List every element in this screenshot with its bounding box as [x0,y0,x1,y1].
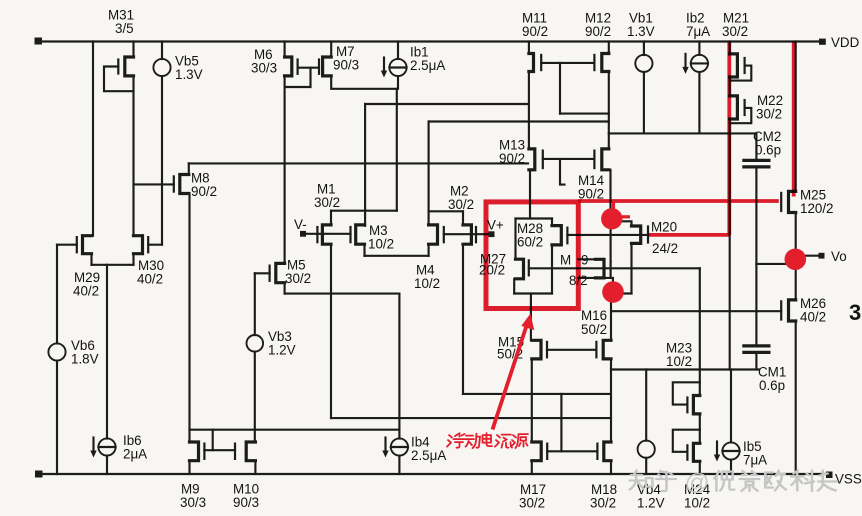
svg-text:0.6p: 0.6p [755,143,781,158]
wire M7 source to VDD [330,42,332,58]
transistor M21 (diode) [730,54,738,77]
wire Vo node to output terminal [796,255,819,257]
svg-text:1.3V: 1.3V [627,24,655,39]
svg-text:60/2: 60/2 [517,235,543,250]
wire M10 source to VSS [254,461,256,474]
wire M30 gate to Vb5 line [148,244,162,246]
current source Ib4 [391,438,408,455]
wire Vb6 column [56,245,58,344]
transistor M4 [429,225,438,244]
wire bus M8 drain to M13 [189,162,528,164]
wire bus y=418.1 [331,417,611,419]
svg-text:30/2: 30/2 [314,195,340,210]
svg-text:90/2: 90/2 [585,24,611,39]
arrow Ib4 [384,438,386,454]
svg-text:1.2V: 1.2V [268,343,296,358]
wire Vb1 down to bias bus [643,72,645,133]
wire bias bus y=133.4 [609,132,756,134]
wire M28 source down to bottom loop [551,245,553,294]
wire M19 source to bottom node [604,278,613,291]
voltage source Vb5 [153,59,170,76]
svg-text:30/3: 30/3 [180,495,206,510]
wire Vb1 tap [643,42,645,56]
wire M4 drain riser to folded node [428,122,430,225]
node square VSS terminal [826,472,833,479]
transistor M2 [463,225,471,244]
wire M1 drain bus y=210.7 [331,210,397,212]
red annotation arrow [493,327,527,430]
transistor M16 [603,340,611,359]
wire M3/M4 bottom bus [365,255,429,257]
wire V- to M1/M3 gates [303,233,351,235]
wire CM1 bottom lead [755,353,757,370]
node V+ input square [489,231,495,237]
svg-text:3: 3 [849,300,861,325]
svg-text:40/2: 40/2 [137,272,163,287]
node square VDD terminal [819,39,826,45]
wire M8 drain up to horizontal bus [188,163,190,174]
transistor M10 [246,442,255,461]
svg-text:90/2: 90/2 [499,151,525,166]
VSS rail [38,473,827,475]
wire M11/M12 gate tie [541,62,594,64]
wire Ib1 bottom to junction [397,76,399,89]
transistor M14 [602,149,609,170]
wire Vb4 tap [645,370,647,441]
wire M30 source drop [132,254,134,265]
wire M23 gate loop [673,382,700,404]
transistor M31 (diode connected) [125,57,134,76]
voltage source Vb6 [48,343,65,360]
wire M27 source down to bottom loop [513,279,515,294]
wire floating-source output tap down [530,294,532,340]
wire M1 source long drop [330,244,332,418]
wire M20 source to bottom node [612,292,632,294]
transistor M20 [632,226,641,243]
red wire M20 gate highlight [648,233,729,237]
wire Ib1/M7 node down to M1/M3 drains [396,89,398,211]
red wire VDD to M25 gate highlight [792,42,796,197]
wire M23 drain column from gate bus [699,268,701,395]
wire M3 source drop [363,244,365,256]
wire Ib2 to VDD [698,42,700,55]
wire tail bus y=293.6 [285,293,400,295]
wire M19 source stub into box [578,277,595,279]
current source Ib5 [722,442,739,459]
wire M31 drain down to M30 drain [132,76,134,236]
wire M22 column down to Ib5 [729,119,731,370]
wire M17/M18 gate tap up [560,394,562,451]
svg-text:M16: M16 [581,308,607,323]
wire M18 source to VSS [610,461,612,474]
wire M12 column VDD drop [608,42,610,54]
wire M29 source drop [90,254,92,265]
wire M8 source down to M9 drain [188,194,190,443]
transistor M9 (diode) [190,442,199,461]
svg-text:2.5μA: 2.5μA [411,448,446,463]
wire bus y=104 to M13 column [365,103,529,105]
wire M6/M7 gate tie [298,67,319,69]
red wire M21/M22 column highlight [727,42,731,235]
transistor M1 [322,225,331,244]
wire M15 column down to M17 [531,359,533,442]
wire M9/M10 gates [204,449,235,451]
capacitor CM1 [755,311,757,345]
wire output column VDD drop [795,42,797,192]
wire Ib4 column [398,294,400,439]
wire Vb4 to VSS [645,458,647,474]
svg-text:@: @ [684,470,709,496]
svg-text:9: 9 [581,253,588,268]
svg-text:10/2: 10/2 [414,276,440,291]
wire bottom node down to M16 [610,291,612,340]
svg-text:2μA: 2μA [123,447,147,462]
svg-text:V+: V+ [487,218,504,233]
wire M31 gate loop [104,67,134,92]
wire Vo left segment [756,263,787,265]
transistor M13 [529,149,535,170]
wire M17 source to VSS [531,461,533,474]
wire M8 gate from M31 drain line [134,183,174,185]
wire bus y=121.5 to M12 column [429,120,609,122]
svg-text:90/3: 90/3 [233,495,259,510]
wire M11 column VDD drop [528,42,530,54]
current source Ib1 [389,59,406,76]
voltage source Vb1 [635,55,652,72]
svg-text:1.2V: 1.2V [637,496,665,511]
svg-text:V-: V- [294,217,307,232]
transistor M5 [276,263,285,282]
wire M13 source down into box node A [529,170,531,219]
red node dot Vo [785,248,807,270]
wire M16 source down [610,359,612,442]
svg-text:7μA: 7μA [686,24,710,39]
wire M13/M14 gate tie [543,158,595,160]
transistor M26 [789,300,796,321]
wire Vb5 to M30 gate [161,76,163,245]
transistor M6 [285,57,292,76]
wire M2 drain riser [462,211,464,225]
wire node A down to M27 drain [514,219,516,260]
wire top node to M20 drain [611,221,632,226]
red node dot bottom (M16 drain) [602,281,624,303]
wire tail down to Ib6 [106,265,108,439]
wire M5 source to tail bus [284,283,286,294]
svg-text:120/2: 120/2 [800,201,834,216]
wire M6 column to VDD [284,42,286,58]
wire Ib1 to VDD [397,42,399,59]
wire box bottom loop [514,292,552,294]
wire M21 source to M22 drain [729,77,731,96]
transistor M19 [596,259,605,278]
red box around floating current source [486,202,578,309]
wire M24 gate loop [673,430,700,452]
svg-text:1.8V: 1.8V [71,352,99,367]
transistor M7 [323,57,332,76]
wire diode tap to M12 column [560,113,609,115]
wire M21 gate loop [730,66,752,81]
transistor M25 [789,191,796,212]
wire M29 gate to Vb6 column [57,244,77,246]
svg-text:30/2: 30/2 [756,107,782,122]
svg-text:30/2: 30/2 [590,496,616,511]
svg-text:90/2: 90/2 [522,24,548,39]
wire M1 drain riser [330,211,332,225]
svg-text:2.5μA: 2.5μA [410,58,445,73]
wire M9 source to VSS [188,461,190,474]
svg-text:M20: M20 [651,220,677,235]
svg-text:VDD: VDD [831,35,860,50]
svg-text:M: M [560,253,571,268]
wire Ib5 to VSS [730,460,732,474]
wire M22 gate loop [730,108,752,123]
wire M25 drain to Vo node [795,213,797,260]
wire VDD drop to M29 drain [92,42,94,236]
svg-text:VSS: VSS [835,472,862,487]
svg-text:90/3: 90/3 [333,58,359,73]
transistor M15 [532,340,541,359]
red stub right of top node [622,215,630,218]
wire M26 source to VSS [795,321,797,474]
wire M9 diode tap [212,430,214,451]
transistor M12 [602,54,609,72]
transistor M8 [180,175,189,194]
node square left VSS end [35,471,43,478]
wire M20 source drop [630,243,632,293]
wire M23 source to M24 drain [699,414,701,443]
wire M14 drain down to top node [609,170,611,219]
wire Ib2 down to bias bus [698,72,700,133]
svg-text:1.3V: 1.3V [175,67,203,82]
wire M28 drain riser [551,219,553,226]
wire M11/M12 gate diode tap [559,63,561,114]
transistor M11 [529,54,534,72]
wire Ib5 tap [730,370,732,443]
wire M29/M30 common source [92,264,134,266]
wire M26 gate bus [611,310,781,312]
transistor M18 [604,442,611,461]
svg-text:30/2: 30/2 [722,24,748,39]
wire M4 source drop [428,244,430,256]
wire M24 source to VSS [699,461,701,474]
wire M16 source bus right [611,368,759,370]
wire Ib4 to VSS [398,456,400,474]
current source Ib2 [691,55,708,72]
wire M15/M16 gate tie [547,349,596,351]
svg-text:10/2: 10/2 [666,354,692,369]
wire M4/M2 gates V+ line [444,233,489,235]
node V- input square [300,231,306,237]
wire M5 gate [255,272,270,274]
svg-text:30/3: 30/3 [251,61,277,76]
wire bus y=393.9 M2 source to M18 drain [463,393,611,395]
svg-text:20/2: 20/2 [479,263,505,278]
wire M7 drain down and right [331,76,397,89]
svg-text:30/2: 30/2 [285,271,311,286]
svg-text:24/2: 24/2 [652,241,678,256]
red stub top node [612,201,615,212]
svg-text:90/2: 90/2 [191,184,217,199]
svg-text:40/2: 40/2 [800,310,826,325]
transistor M27 [516,259,524,279]
wire M6 diode tap [285,68,311,87]
red wire from box to M21 column [578,199,779,203]
wire top node down to M19 gate [610,219,612,261]
arrow Ib5 [716,442,718,458]
wire Ib6 to VSS [106,456,108,474]
wire Vo node down to M26 drain [795,259,797,300]
red annotation text floating-current-source (vector CJK) [447,433,528,448]
svg-text:50/2: 50/2 [581,322,607,337]
wire Vb6 to VSS [56,361,58,474]
watermark (vector CJK, light gray) [630,470,837,496]
transistor M24 (diode) [693,443,699,461]
arrow Ib2 [684,54,686,70]
wire M6 drain column down to M5 drain [284,76,286,264]
wire Vb3 column from M5 gate [254,273,256,335]
wire M2 drain bus y=211.3 [429,210,463,212]
wire M11 drain down to M13 [528,72,530,149]
transistor M3 [356,225,365,244]
wire M28/M20 gate bus [567,234,648,236]
transistor M23 (diode) [693,396,699,414]
node square left VDD end [35,38,43,45]
wire M17/M18 gate tie [547,450,597,452]
wire Vb5 column top [161,42,163,60]
wire M3 drain riser [364,104,366,226]
wire M21/M22 column VDD drop [729,42,731,54]
svg-text:30/2: 30/2 [519,496,545,511]
transistor M22 (diode) [730,96,738,119]
svg-text:Vo: Vo [831,249,847,264]
svg-text:0.6p: 0.6p [759,378,785,393]
transistor M17 [532,442,541,461]
current source Ib6 [98,438,115,455]
wire M2 source drop [462,244,464,394]
svg-text:7μA: 7μA [743,453,767,468]
capacitor CM2 [755,133,757,160]
wire M27 gate long bus to M23 [529,267,700,269]
wire M12 drain down to M14 [608,72,610,149]
voltage source Vb3 [247,335,264,352]
wire M19 drain stub [578,258,595,260]
voltage source Vb4 [638,441,655,458]
transistor M30 [134,236,143,254]
node Vo square [819,253,825,259]
node A top wire inside box [516,217,553,219]
wire bus y=429.7 (M9 drain bias) [190,429,400,431]
svg-text:10/2: 10/2 [684,496,710,511]
svg-text:10/2: 10/2 [368,237,394,252]
svg-text:40/2: 40/2 [73,284,99,299]
arrow Ib6 [92,438,94,454]
transistor M28 [552,226,561,245]
svg-text:3/5: 3/5 [115,21,134,36]
wire Vb3 to M10 drain [254,352,256,442]
arrow Ib1 [383,58,385,74]
svg-text:30/2: 30/2 [448,197,474,212]
wire cascode bias tap [560,159,565,185]
red node dot top (M14/M20 drain) [601,208,622,229]
transistor M29 [83,236,92,254]
VDD rail [38,40,821,42]
wire M31 column: VDD to M31 top [132,42,134,58]
wire CM2 bottom lead down to Vo [755,167,757,311]
